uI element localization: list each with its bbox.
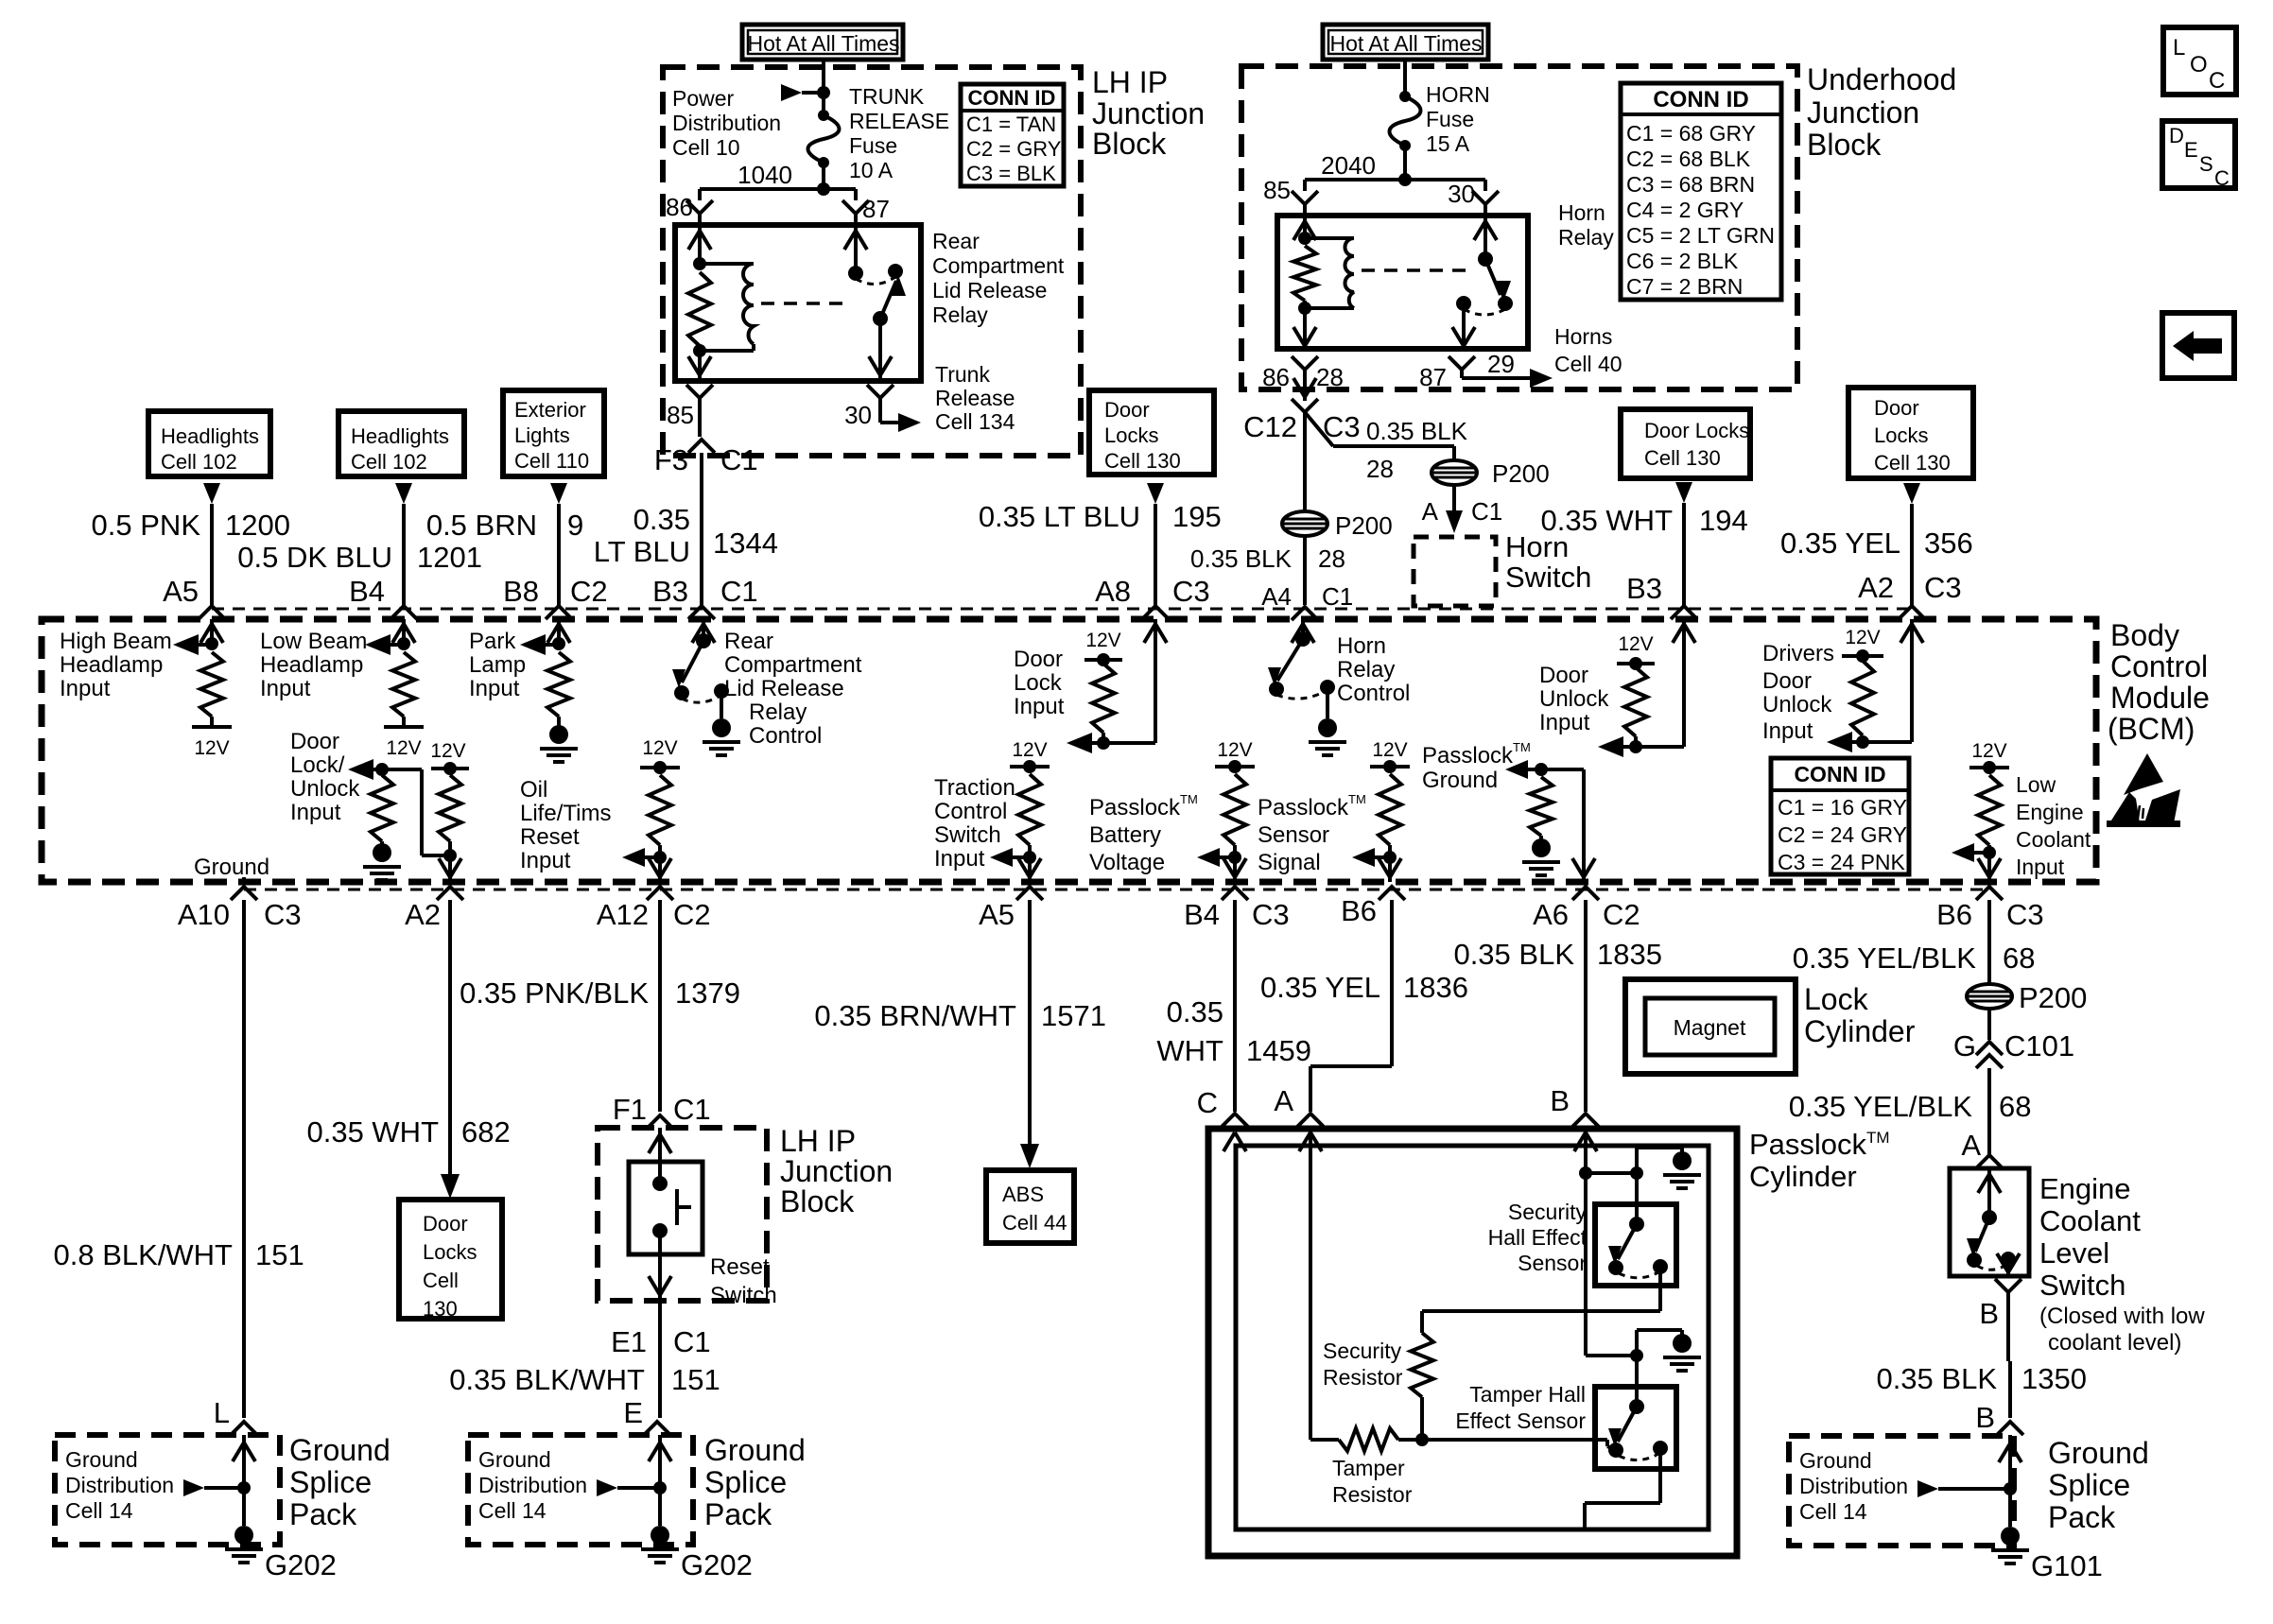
svg-text:0.35 LT BLU: 0.35 LT BLU bbox=[979, 500, 1140, 533]
svg-text:Resistor: Resistor bbox=[1323, 1365, 1403, 1390]
svg-text:Low Beam: Low Beam bbox=[260, 629, 367, 654]
svg-text:9: 9 bbox=[567, 509, 583, 542]
svg-text:12V: 12V bbox=[1845, 627, 1880, 648]
svg-text:Hall Effect: Hall Effect bbox=[1488, 1225, 1588, 1250]
svg-text:0.35 BLK: 0.35 BLK bbox=[1453, 938, 1574, 971]
svg-text:Block: Block bbox=[1092, 127, 1167, 161]
svg-text:Trunk: Trunk bbox=[935, 362, 990, 387]
svg-text:LH IP: LH IP bbox=[1092, 65, 1168, 99]
svg-text:Cell 130: Cell 130 bbox=[1104, 449, 1181, 473]
arrow to Trunk Release Cell 134 bbox=[878, 398, 882, 423]
pin A10 C3 bbox=[231, 887, 257, 900]
pin A2 bottom bbox=[437, 887, 463, 900]
svg-text:Coolant: Coolant bbox=[2039, 1204, 2141, 1237]
svg-text:Tamper: Tamper bbox=[1332, 1456, 1405, 1480]
pin A12 C2 bbox=[647, 887, 673, 900]
svg-text:C3 = 68 BRN: C3 = 68 BRN bbox=[1626, 172, 1755, 197]
svg-text:C2: C2 bbox=[673, 898, 711, 931]
svg-text:Ground: Ground bbox=[194, 855, 269, 880]
svg-text:Relay: Relay bbox=[749, 700, 807, 725]
svg-text:Cell 14: Cell 14 bbox=[65, 1498, 133, 1523]
svg-text:1040: 1040 bbox=[737, 161, 792, 189]
svg-text:A4: A4 bbox=[1261, 582, 1292, 611]
svg-text:0.35 WHT: 0.35 WHT bbox=[1540, 504, 1673, 537]
svg-text:L: L bbox=[2173, 35, 2185, 60]
back-arrow box bbox=[2162, 313, 2234, 378]
pin B4 C3 bottom bbox=[1222, 887, 1248, 900]
svg-text:Power: Power bbox=[672, 86, 735, 111]
passlock C wire bbox=[1223, 1132, 1235, 1151]
svg-text:1201: 1201 bbox=[417, 541, 482, 574]
svg-text:Drivers: Drivers bbox=[1762, 641, 1834, 666]
svg-text:29: 29 bbox=[1487, 350, 1515, 378]
svg-text:Cell 10: Cell 10 bbox=[672, 135, 740, 160]
P200 connector left bbox=[1282, 511, 1327, 536]
svg-text:Switch: Switch bbox=[934, 822, 1001, 848]
Door Locks Cell 130 box 3 bbox=[1848, 388, 1973, 478]
ground symbol G101 bbox=[2001, 1527, 2020, 1546]
arrow from door locks box3 bbox=[1903, 483, 1920, 504]
Headlights Cell 102 box 2 bbox=[338, 411, 464, 476]
Door Unlock Input 12V resistor B3 bbox=[1682, 619, 1686, 747]
svg-text:Relay: Relay bbox=[932, 302, 988, 327]
svg-text:P200: P200 bbox=[1335, 511, 1393, 540]
svg-text:Rear: Rear bbox=[932, 229, 980, 253]
svg-text:C2: C2 bbox=[570, 575, 608, 608]
svg-text:Headlamp: Headlamp bbox=[60, 652, 163, 678]
svg-text:Engine: Engine bbox=[2016, 800, 2084, 824]
svg-text:ABS: ABS bbox=[1002, 1183, 1044, 1206]
svg-text:151: 151 bbox=[671, 1363, 720, 1396]
svg-text:CONN ID: CONN ID bbox=[1794, 762, 1885, 786]
Door Locks Cell 130 box 1 bbox=[1089, 390, 1214, 475]
svg-text:Release: Release bbox=[935, 386, 1015, 410]
tamper left contact from A line bbox=[1605, 1440, 1609, 1446]
Hot At All Times label box 2 bbox=[1323, 25, 1488, 60]
svg-text:C3 = 24 PNK: C3 = 24 PNK bbox=[1778, 850, 1906, 874]
svg-text:C12: C12 bbox=[1243, 410, 1297, 443]
svg-text:Control: Control bbox=[2110, 649, 2208, 683]
svg-text:C3: C3 bbox=[1252, 898, 1290, 931]
arrow from box1 bbox=[203, 483, 220, 504]
B feed to security sensor bbox=[1586, 1171, 1637, 1175]
svg-text:151: 151 bbox=[255, 1238, 304, 1271]
svg-text:0.35: 0.35 bbox=[1167, 995, 1223, 1028]
svg-text:0.5 DK BLU: 0.5 DK BLU bbox=[237, 541, 392, 574]
svg-text:Headlights: Headlights bbox=[161, 424, 259, 448]
Body Control Module BCM dashed box bbox=[42, 619, 2096, 882]
svg-text:Hot At All Times: Hot At All Times bbox=[747, 31, 899, 56]
svg-text:C6 = 2 BLK: C6 = 2 BLK bbox=[1626, 249, 1739, 273]
svg-text:12V: 12V bbox=[1971, 740, 2006, 762]
svg-text:Locks: Locks bbox=[423, 1240, 477, 1264]
svg-text:Pack: Pack bbox=[289, 1497, 357, 1531]
svg-text:68: 68 bbox=[1999, 1090, 2031, 1123]
svg-text:Coolant: Coolant bbox=[2016, 827, 2091, 852]
svg-text:C2 = 68 BLK: C2 = 68 BLK bbox=[1626, 147, 1751, 171]
svg-text:G202: G202 bbox=[265, 1548, 337, 1581]
svg-text:15 A: 15 A bbox=[1426, 131, 1470, 156]
svg-text:Traction: Traction bbox=[934, 775, 1015, 801]
svg-text:A5: A5 bbox=[163, 575, 199, 608]
svg-text:Cell: Cell bbox=[423, 1269, 459, 1292]
Low Beam Headlamp Input resistor B4 bbox=[402, 619, 406, 644]
svg-text:Distribution: Distribution bbox=[1799, 1474, 1908, 1498]
pin 86 exit bbox=[1292, 356, 1318, 370]
svg-text:Door: Door bbox=[1762, 668, 1812, 694]
DESC reference box bbox=[2162, 121, 2235, 188]
svg-text:Junction: Junction bbox=[1807, 95, 1919, 130]
svg-text:Relay: Relay bbox=[1558, 225, 1614, 250]
svg-text:A: A bbox=[1274, 1084, 1293, 1117]
Security Hall Effect Sensor box bbox=[1595, 1204, 1676, 1286]
svg-text:12V: 12V bbox=[430, 740, 465, 762]
svg-text:0.35 YEL/BLK: 0.35 YEL/BLK bbox=[1789, 1090, 1973, 1123]
svg-text:G101: G101 bbox=[2031, 1549, 2103, 1582]
svg-text:Input: Input bbox=[520, 848, 571, 873]
svg-text:C101: C101 bbox=[2004, 1029, 2074, 1063]
svg-text:Unlock: Unlock bbox=[290, 776, 360, 802]
svg-text:Engine: Engine bbox=[2039, 1172, 2131, 1205]
svg-text:B4: B4 bbox=[1184, 898, 1220, 931]
svg-text:E: E bbox=[623, 1396, 643, 1429]
pin 85 connector bbox=[1292, 191, 1318, 204]
pin 87 connector bbox=[842, 200, 869, 214]
svg-text:Input: Input bbox=[1539, 710, 1590, 735]
Passlock Cylinder outer box bbox=[1208, 1129, 1737, 1556]
svg-text:Battery: Battery bbox=[1089, 822, 1161, 848]
svg-text:F3: F3 bbox=[654, 443, 688, 476]
svg-text:E1: E1 bbox=[611, 1325, 647, 1358]
arrow from box2 bbox=[395, 483, 412, 504]
svg-text:86: 86 bbox=[1262, 363, 1290, 391]
arrow to Horns Cell 40 bbox=[1460, 370, 1464, 378]
svg-text:Locks: Locks bbox=[1104, 423, 1158, 447]
svg-text:Junction: Junction bbox=[780, 1154, 893, 1188]
svg-text:Splice: Splice bbox=[2048, 1468, 2130, 1502]
svg-text:12V: 12V bbox=[194, 737, 229, 759]
ground symbol G202 bbox=[651, 1526, 669, 1545]
svg-text:Relay: Relay bbox=[1337, 657, 1395, 682]
Door Locks Cell 130 box 2 bbox=[1621, 409, 1750, 478]
svg-text:Voltage: Voltage bbox=[1089, 850, 1165, 875]
svg-text:Horn: Horn bbox=[1337, 633, 1386, 659]
svg-text:85: 85 bbox=[1263, 176, 1291, 204]
Ground Splice Pack 3 dashed box bbox=[1789, 1436, 2014, 1546]
svg-text:C2 = GRY: C2 = GRY bbox=[966, 137, 1062, 161]
svg-text:P200: P200 bbox=[1492, 459, 1550, 488]
Headlights Cell 102 box 1 bbox=[148, 411, 270, 476]
svg-text:Pack: Pack bbox=[704, 1497, 772, 1531]
svg-text:87: 87 bbox=[862, 195, 890, 223]
svg-text:Sensor: Sensor bbox=[1518, 1251, 1587, 1275]
svg-text:Lock: Lock bbox=[1014, 670, 1063, 696]
pin A5 bottom bbox=[1016, 887, 1043, 900]
svg-text:194: 194 bbox=[1699, 504, 1748, 537]
ESD symbol bbox=[2124, 753, 2163, 795]
svg-text:Splice: Splice bbox=[704, 1465, 787, 1499]
wire from Hot At All Times 1 bbox=[822, 60, 825, 115]
Door Lock Input 12V resistor A8 bbox=[1154, 619, 1157, 743]
svg-text:Input: Input bbox=[290, 800, 341, 825]
pin 85 connector below relay bbox=[686, 385, 713, 398]
svg-text:Park: Park bbox=[469, 629, 516, 654]
svg-text:Door Locks: Door Locks bbox=[1644, 419, 1749, 442]
svg-text:Lights: Lights bbox=[514, 423, 570, 447]
svg-text:2040: 2040 bbox=[1321, 151, 1376, 180]
arrow from door locks box1 bbox=[1147, 483, 1164, 504]
P200 connector right bbox=[1431, 460, 1477, 485]
svg-text:Unlock: Unlock bbox=[1539, 686, 1609, 712]
svg-text:Cell 102: Cell 102 bbox=[351, 450, 427, 474]
relay actuate dashed line bbox=[761, 302, 851, 305]
svg-text:Fuse: Fuse bbox=[1426, 107, 1474, 131]
svg-text:Ground: Ground bbox=[289, 1433, 390, 1467]
svg-text:C3: C3 bbox=[1924, 571, 1962, 604]
svg-text:682: 682 bbox=[461, 1115, 511, 1149]
passlock B wire bbox=[1584, 1129, 1588, 1356]
svg-text:F1: F1 bbox=[613, 1093, 647, 1126]
svg-text:30: 30 bbox=[844, 401, 872, 429]
svg-text:C1: C1 bbox=[673, 1325, 711, 1358]
svg-text:B: B bbox=[1979, 1297, 1999, 1330]
svg-text:CONN ID: CONN ID bbox=[968, 86, 1056, 110]
svg-text:A: A bbox=[1422, 497, 1439, 526]
svg-text:C1 = 68 GRY: C1 = 68 GRY bbox=[1626, 121, 1756, 146]
arrow into horn switch bbox=[1452, 485, 1456, 512]
A line with Tamper Resistor bbox=[1339, 1428, 1398, 1451]
svg-text:28: 28 bbox=[1318, 544, 1345, 573]
svg-text:O: O bbox=[2190, 52, 2208, 78]
svg-text:A: A bbox=[1961, 1129, 1981, 1162]
svg-text:C1: C1 bbox=[1471, 497, 1502, 526]
svg-text:1835: 1835 bbox=[1597, 938, 1662, 971]
svg-text:Door: Door bbox=[1539, 663, 1588, 688]
svg-text:1379: 1379 bbox=[675, 976, 740, 1010]
Horn Relay Control switch A4 bbox=[1301, 619, 1305, 639]
horn relay coil bbox=[1303, 216, 1307, 238]
B connector below switch bbox=[1995, 1279, 2021, 1292]
svg-text:12V: 12V bbox=[1085, 630, 1120, 651]
svg-text:Input: Input bbox=[934, 846, 985, 872]
svg-text:1344: 1344 bbox=[713, 527, 778, 560]
svg-text:10 A: 10 A bbox=[849, 158, 894, 182]
svg-text:Effect Sensor: Effect Sensor bbox=[1455, 1408, 1586, 1433]
Passlock Cylinder inner box bbox=[1236, 1146, 1709, 1529]
Hot At All Times label box 1 bbox=[742, 25, 903, 60]
wire A6 to passlock B bbox=[1584, 900, 1588, 1112]
svg-text:Cell 110: Cell 110 bbox=[514, 449, 589, 473]
svg-text:LT BLU: LT BLU bbox=[594, 535, 690, 568]
svg-text:LH IP: LH IP bbox=[780, 1124, 856, 1158]
splice wire 1 bbox=[242, 1441, 246, 1488]
svg-text:28: 28 bbox=[1316, 363, 1344, 391]
svg-text:Compartment: Compartment bbox=[932, 253, 1065, 278]
svg-text:Door: Door bbox=[1874, 396, 1919, 420]
svg-text:Junction: Junction bbox=[1092, 96, 1205, 130]
svg-text:Switch: Switch bbox=[1505, 561, 1591, 594]
Exterior Lights Cell 110 box bbox=[503, 390, 604, 476]
B feed to tamper sensor bbox=[1586, 1354, 1637, 1357]
CONN ID table (LH IP) bbox=[961, 84, 1064, 186]
arrow from door locks box2 bbox=[1675, 482, 1692, 503]
svg-text:(Closed with low: (Closed with low bbox=[2039, 1304, 2205, 1329]
horn relay dashed actuate line bbox=[1362, 268, 1475, 272]
wire A2 to door locks cell 130 bbox=[448, 900, 452, 1176]
svg-text:Cell 102: Cell 102 bbox=[161, 450, 237, 474]
pin 30 connector bbox=[1472, 191, 1499, 204]
diagonal wire to horn switch bbox=[1305, 412, 1333, 446]
svg-text:Lid Release: Lid Release bbox=[724, 676, 844, 701]
svg-text:Lock/: Lock/ bbox=[290, 752, 345, 778]
main horn wire down to BCM bbox=[1303, 412, 1307, 605]
svg-text:D: D bbox=[2169, 124, 2184, 147]
svg-text:B6: B6 bbox=[1341, 894, 1377, 927]
svg-text:Lock: Lock bbox=[1804, 982, 1869, 1016]
svg-text:0.35 YEL: 0.35 YEL bbox=[1260, 971, 1380, 1004]
svg-text:Headlights: Headlights bbox=[351, 424, 449, 448]
svg-text:28: 28 bbox=[1366, 455, 1394, 483]
svg-text:A6: A6 bbox=[1533, 898, 1569, 931]
svg-text:B3: B3 bbox=[1626, 572, 1662, 605]
svg-text:C2 = 24 GRY: C2 = 24 GRY bbox=[1778, 822, 1907, 847]
svg-text:Horn: Horn bbox=[1558, 200, 1605, 225]
ABS Cell 44 box bbox=[986, 1170, 1074, 1243]
svg-text:Ground: Ground bbox=[1799, 1448, 1872, 1473]
svg-text:B: B bbox=[1975, 1401, 1995, 1434]
svg-text:TRUNK: TRUNK bbox=[849, 84, 925, 109]
power feed arrow bbox=[781, 84, 802, 101]
svg-text:E: E bbox=[2184, 138, 2198, 162]
splice wire 3 bbox=[2008, 1442, 2012, 1489]
svg-text:A12: A12 bbox=[597, 898, 649, 931]
svg-text:Lid Release: Lid Release bbox=[932, 278, 1047, 302]
svg-text:195: 195 bbox=[1172, 500, 1222, 533]
svg-text:0.35 YEL: 0.35 YEL bbox=[1780, 527, 1900, 560]
svg-text:0.35 YEL/BLK: 0.35 YEL/BLK bbox=[1793, 942, 1977, 975]
svg-text:Input: Input bbox=[1014, 694, 1065, 719]
LOC reference box bbox=[2163, 27, 2236, 95]
CONN ID table (Underhood) bbox=[1621, 83, 1781, 300]
svg-text:12V: 12V bbox=[1217, 739, 1252, 761]
svg-text:C7 = 2 BRN: C7 = 2 BRN bbox=[1626, 274, 1743, 299]
relay switch branch pin87 bbox=[854, 225, 858, 273]
svg-text:A2: A2 bbox=[405, 898, 441, 931]
svg-text:Cylinder: Cylinder bbox=[1804, 1014, 1916, 1048]
wire A12 down to LH IP junction block 2 bbox=[658, 900, 662, 1112]
svg-text:C3 = BLK: C3 = BLK bbox=[966, 162, 1056, 185]
Horn Switch dashed box bbox=[1414, 537, 1496, 606]
Horn Relay box bbox=[1277, 216, 1528, 349]
Ground Splice Pack 1 dashed box bbox=[55, 1435, 280, 1545]
passlock A wire bbox=[1309, 1129, 1312, 1440]
svg-text:Door: Door bbox=[290, 729, 339, 754]
svg-text:85: 85 bbox=[667, 401, 694, 429]
svg-text:C5 = 2 LT GRN: C5 = 2 LT GRN bbox=[1626, 223, 1775, 248]
wire B4C3 to passlock C bbox=[1233, 900, 1237, 1112]
svg-text:CONN ID: CONN ID bbox=[1653, 87, 1748, 112]
ground symbol G202 bbox=[234, 1526, 253, 1545]
svg-text:0.35: 0.35 bbox=[633, 503, 690, 536]
svg-text:Life/Tims: Life/Tims bbox=[520, 801, 611, 826]
Ground Splice Pack 2 dashed box bbox=[468, 1435, 693, 1545]
svg-text:Ground: Ground bbox=[704, 1433, 806, 1467]
svg-text:A5: A5 bbox=[979, 898, 1015, 931]
svg-text:Body: Body bbox=[2110, 618, 2179, 652]
svg-text:A2: A2 bbox=[1858, 571, 1894, 604]
svg-text:C1 = TAN: C1 = TAN bbox=[966, 112, 1056, 136]
svg-text:86: 86 bbox=[666, 193, 693, 221]
svg-text:C: C bbox=[2214, 166, 2230, 190]
svg-text:Input: Input bbox=[469, 676, 520, 701]
svg-text:Ground: Ground bbox=[478, 1447, 551, 1472]
svg-text:130: 130 bbox=[423, 1297, 458, 1321]
svg-text:12V: 12V bbox=[1012, 739, 1047, 761]
svg-text:Cylinder: Cylinder bbox=[1749, 1160, 1857, 1193]
svg-text:Exterior: Exterior bbox=[514, 398, 586, 422]
svg-text:C2: C2 bbox=[1603, 898, 1640, 931]
svg-text:C1: C1 bbox=[673, 1093, 711, 1126]
arrow from exterior lights box bbox=[550, 483, 567, 504]
svg-text:B3: B3 bbox=[652, 575, 688, 608]
F3 C1 connector bbox=[688, 440, 715, 453]
svg-text:87: 87 bbox=[1419, 363, 1447, 391]
svg-text:B4: B4 bbox=[349, 575, 385, 608]
splitter to pins 85 30 bbox=[1305, 178, 1485, 181]
svg-text:C1 = 16 GRY: C1 = 16 GRY bbox=[1778, 795, 1907, 820]
svg-text:Lamp: Lamp bbox=[469, 652, 526, 678]
svg-text:WHT: WHT bbox=[1156, 1034, 1223, 1067]
pin 87 exit bbox=[1449, 356, 1475, 370]
svg-text:0.5 BRN: 0.5 BRN bbox=[426, 509, 537, 542]
svg-text:Switch: Switch bbox=[2039, 1269, 2126, 1302]
relay coil branch pin86 bbox=[698, 225, 702, 264]
svg-text:Unlock: Unlock bbox=[1762, 692, 1832, 717]
svg-text:Magnet: Magnet bbox=[1674, 1015, 1746, 1040]
svg-text:Ground: Ground bbox=[65, 1447, 138, 1472]
svg-text:B8: B8 bbox=[503, 575, 539, 608]
svg-text:coolant level): coolant level) bbox=[2048, 1330, 2181, 1356]
splitter line to pins 86 87 bbox=[700, 187, 856, 191]
Rear Compartment Lid Release Relay Control switch B3 bbox=[702, 619, 705, 641]
svg-text:RELEASE: RELEASE bbox=[849, 109, 949, 133]
svg-text:C1: C1 bbox=[1322, 582, 1353, 611]
wire A10 to ground splice pack 1 bbox=[242, 900, 246, 1418]
svg-text:Block: Block bbox=[780, 1184, 855, 1218]
svg-text:B6: B6 bbox=[1936, 898, 1972, 931]
svg-text:Reset: Reset bbox=[520, 824, 580, 850]
svg-text:Reset: Reset bbox=[710, 1254, 770, 1280]
svg-text:A8: A8 bbox=[1095, 575, 1131, 608]
svg-text:C: C bbox=[1197, 1086, 1218, 1119]
svg-text:P200: P200 bbox=[2019, 981, 2087, 1014]
svg-text:Input: Input bbox=[60, 676, 111, 701]
svg-text:Headlamp: Headlamp bbox=[260, 652, 363, 678]
HORN fuse 15A bbox=[1399, 91, 1411, 102]
svg-text:Oil: Oil bbox=[520, 777, 547, 803]
svg-text:Horns: Horns bbox=[1554, 324, 1612, 349]
svg-text:Signal: Signal bbox=[1258, 850, 1321, 875]
svg-text:C4 = 2 GRY: C4 = 2 GRY bbox=[1626, 198, 1744, 222]
svg-text:Compartment: Compartment bbox=[724, 652, 862, 678]
svg-text:Cell 44: Cell 44 bbox=[1002, 1211, 1067, 1235]
svg-text:0.35 BRN/WHT: 0.35 BRN/WHT bbox=[814, 999, 1016, 1032]
svg-text:Tamper Hall: Tamper Hall bbox=[1469, 1382, 1586, 1407]
svg-text:12V: 12V bbox=[386, 737, 421, 759]
svg-text:C3: C3 bbox=[2006, 898, 2044, 931]
wire B6 to passlock A bbox=[1390, 900, 1394, 1066]
svg-text:0.35 BLK: 0.35 BLK bbox=[1190, 544, 1293, 573]
